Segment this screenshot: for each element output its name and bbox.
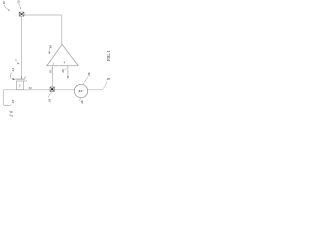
arrow right leg xyxy=(67,66,69,79)
label 22 xyxy=(10,100,15,106)
pump B1 (crossed box) xyxy=(50,87,54,91)
label 20 xyxy=(61,68,67,73)
label 16 xyxy=(49,45,53,54)
label 24 pump leader xyxy=(48,92,52,103)
wire top horizontal xyxy=(24,14,62,16)
svg-text:14: 14 xyxy=(11,68,15,72)
label 14 tank leader xyxy=(10,68,15,80)
label 10 xyxy=(2,1,10,11)
svg-text:22: 22 xyxy=(11,100,15,105)
label 30 on bottom wire xyxy=(28,86,32,90)
tank body xyxy=(16,81,23,90)
funnel T1 (triangle) xyxy=(47,44,78,65)
svg-text:18: 18 xyxy=(48,70,52,74)
svg-text:16: 16 xyxy=(49,45,53,49)
valve V1 xyxy=(19,12,24,16)
label 25 circle bottom xyxy=(80,98,84,105)
drain pipe xyxy=(3,90,10,106)
wire valve down xyxy=(20,16,22,79)
svg-text:10: 10 xyxy=(2,1,6,5)
svg-text:26: 26 xyxy=(9,109,14,117)
bottom wire xyxy=(3,89,102,91)
label 26 below drain xyxy=(9,109,14,117)
label 13 arrow mid-left xyxy=(15,58,19,64)
svg-text:26: 26 xyxy=(80,100,84,105)
svg-text:14: 14 xyxy=(21,76,28,79)
svg-text:28: 28 xyxy=(106,77,111,81)
label 18 xyxy=(48,68,52,73)
label 12 xyxy=(16,0,21,9)
label 26 circle top leader xyxy=(83,72,91,85)
svg-text:12: 12 xyxy=(16,0,20,4)
svg-text:30: 30 xyxy=(28,86,32,90)
svg-text:2: 2 xyxy=(18,84,21,88)
tank lid xyxy=(15,78,25,80)
motor M1 (circle) xyxy=(74,84,87,97)
svg-text:24: 24 xyxy=(48,99,52,104)
svg-text:FIG. 1: FIG. 1 xyxy=(107,50,111,61)
wire top right vertical xyxy=(61,15,63,44)
svg-text:26: 26 xyxy=(87,72,91,77)
svg-text:24: 24 xyxy=(77,89,82,93)
tank rim xyxy=(16,80,27,82)
wire left leg xyxy=(52,66,54,87)
label 28 right end leader xyxy=(102,77,110,89)
